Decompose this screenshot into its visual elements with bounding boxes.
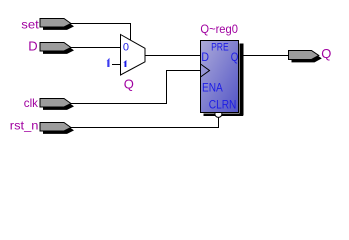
svg-text:ENA: ENA (202, 81, 223, 95)
wire rst_n to flipflop CLRN bubble (71, 117, 219, 127)
svg-text:rst_n: rst_n (10, 118, 39, 132)
svg-text:D: D (28, 39, 37, 54)
input pin clk (40, 99, 74, 110)
svg-text:clk: clk (24, 96, 39, 110)
svg-text:D: D (201, 50, 209, 64)
svg-text:Q: Q (231, 50, 239, 64)
wire D to mux input 0 (71, 47, 121, 49)
flipflop Q~reg0 body (201, 41, 239, 113)
svg-text:Q: Q (124, 76, 134, 91)
input pin rst_n (40, 123, 74, 134)
flipflop Q~reg0 shadow (204, 44, 244, 117)
svg-text:PRE: PRE (211, 41, 229, 53)
wire mux output to flipflop D (145, 55, 200, 57)
output pin Q (289, 51, 322, 63)
flipflop clock triangle (201, 64, 210, 77)
input pin D (40, 43, 74, 54)
wire constant 1 tick to mux input 1 (112, 64, 121, 66)
wire clk to flipflop clock (71, 71, 200, 104)
flipflop CLRN bubble (215, 110, 222, 117)
mux port 1 (123, 60, 126, 67)
wire flipflop Q to output pin (243, 55, 289, 57)
constant 1 (106, 58, 109, 67)
svg-text:Q: Q (321, 46, 331, 61)
input pin set (40, 19, 74, 30)
mux Q (121, 35, 146, 76)
svg-text:set: set (21, 17, 39, 31)
wire set to mux select (71, 24, 131, 41)
svg-text:Q~reg0: Q~reg0 (200, 22, 238, 36)
svg-text:0: 0 (123, 42, 129, 54)
svg-text:CLRN: CLRN (209, 98, 237, 112)
